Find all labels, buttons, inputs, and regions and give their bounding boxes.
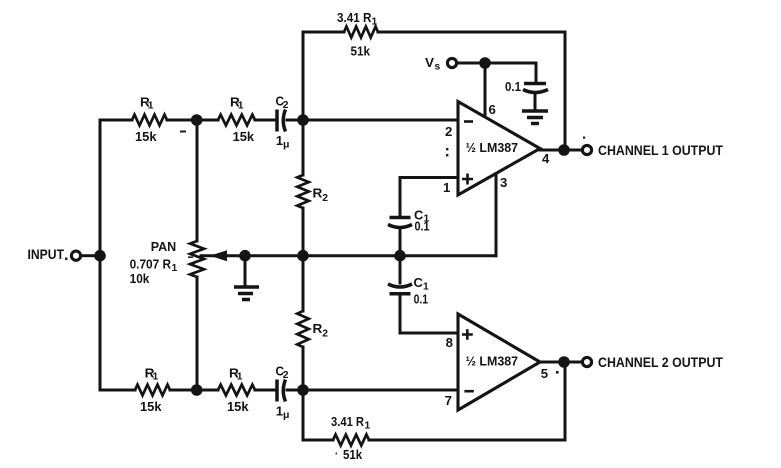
svg-text:2: 2 [322, 329, 328, 340]
svg-text:·: · [335, 446, 338, 461]
svg-text:15k: 15k [135, 129, 157, 144]
svg-text:½ LM387: ½ LM387 [466, 354, 518, 369]
svg-text:1: 1 [443, 180, 450, 195]
svg-text:1: 1 [238, 101, 244, 112]
svg-text:1: 1 [148, 101, 154, 112]
svg-text:51k: 51k [351, 44, 371, 59]
svg-text:3.41 R: 3.41 R [337, 10, 372, 25]
svg-text:2: 2 [322, 193, 328, 204]
svg-text:4: 4 [542, 151, 550, 166]
svg-text:3: 3 [500, 175, 507, 190]
svg-text:1: 1 [372, 17, 378, 28]
svg-text:R: R [313, 186, 323, 201]
svg-text:3.41 R: 3.41 R [331, 414, 364, 429]
svg-text:0.707 R: 0.707 R [130, 257, 172, 272]
svg-text:μ: μ [283, 139, 289, 151]
svg-text:8: 8 [446, 335, 453, 350]
svg-text:R: R [313, 321, 323, 336]
svg-text:s: s [435, 62, 441, 73]
svg-text:0.1: 0.1 [505, 79, 521, 94]
svg-text:10k: 10k [130, 271, 150, 286]
svg-text:2: 2 [445, 124, 452, 139]
svg-text:1: 1 [172, 263, 178, 274]
svg-text:5: 5 [541, 366, 548, 381]
svg-text:1: 1 [365, 421, 371, 432]
svg-text:15k: 15k [233, 129, 255, 144]
svg-text:2: 2 [283, 370, 289, 381]
svg-text:7: 7 [445, 393, 452, 408]
svg-text:½ LM387: ½ LM387 [466, 140, 518, 155]
svg-text:51k: 51k [343, 447, 363, 462]
svg-text:CHANNEL 2 OUTPUT: CHANNEL 2 OUTPUT [598, 354, 723, 370]
svg-text:2: 2 [283, 100, 289, 111]
svg-text:INPUT: INPUT [28, 246, 65, 262]
svg-text:CHANNEL 1 OUTPUT: CHANNEL 1 OUTPUT [598, 142, 723, 158]
svg-text:6: 6 [489, 102, 496, 117]
svg-text:1: 1 [153, 372, 159, 383]
svg-text:15k: 15k [140, 399, 162, 414]
svg-text:C: C [414, 275, 424, 290]
svg-text:1: 1 [237, 372, 243, 383]
svg-text:μ: μ [283, 409, 289, 421]
svg-text:V: V [425, 55, 434, 70]
svg-text:0.1: 0.1 [414, 292, 429, 307]
svg-text:15k: 15k [227, 399, 249, 414]
svg-text:0.1: 0.1 [415, 219, 430, 234]
svg-text:PAN: PAN [151, 239, 177, 254]
